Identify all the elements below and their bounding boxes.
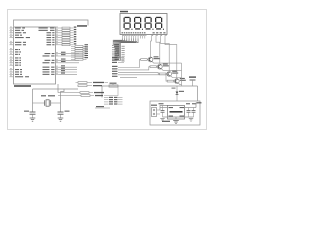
battery B1 input connector: [152, 108, 161, 117]
DS1 reference label: [120, 11, 128, 13]
DS1 digit 4 seven-segment figure 8: [155, 17, 164, 30]
wires from U1 port pins to named nets: [60, 54, 80, 63]
connector J1 pin rows: [104, 97, 123, 105]
wire crystal right branch: [60, 92, 62, 113]
B1 label: [151, 105, 157, 106]
capacitor C4 input filter: [161, 106, 165, 118]
label below regulator: [162, 121, 170, 122]
resistor R18 base resistor of Q2: [150, 66, 157, 68]
ground symbol power supply: [173, 121, 179, 124]
output node label: [197, 102, 202, 103]
DS1 pin name row inside package: [122, 32, 166, 33]
U2 ground pin wire: [175, 117, 177, 119]
U1 right pin stubs: [56, 28, 60, 74]
D1 label: [179, 91, 184, 92]
wire stub crystal right up: [61, 89, 65, 92]
transistor Q3 PNP digit driver: [167, 72, 172, 77]
wire crystal rail: [33, 88, 79, 90]
regulator U2 7805 body: [168, 106, 185, 120]
wires digit select to transistor bases: [118, 60, 168, 82]
transistor Q1 PNP digit driver: [148, 57, 153, 62]
net label near rail below Q4: [172, 88, 176, 89]
DS1 digit common pin stubs: [152, 35, 166, 39]
wire input rail: [160, 106, 168, 111]
switch S1 second row: [78, 85, 102, 87]
wire rail drop to power supply: [197, 86, 199, 101]
ground symbol below C2: [58, 118, 64, 121]
DS1 digit 3 seven-segment figure 8: [145, 17, 154, 30]
resistor R20 base resistor of Q4: [167, 80, 174, 82]
C4 label: [159, 103, 164, 104]
digit select nets with labels: [112, 57, 124, 74]
C2 value label: [65, 111, 70, 112]
net labels at wire ends: [61, 52, 66, 74]
wire stub from S2 to U1: [57, 84, 59, 93]
U1 right pin name labels: [39, 27, 55, 75]
capacitor C5 output filter: [187, 108, 191, 118]
wire bus from DS1 segment pins: [112, 39, 138, 61]
ground symbol below C4: [160, 119, 164, 122]
DS1 pin numbers below package: [123, 35, 167, 36]
wires from U1 P3 pins: [60, 67, 78, 74]
resistor network R1-R8 segment resistors: [60, 27, 77, 46]
net label below keypad: [95, 106, 110, 108]
wires transistor emitters to +5V bus: [152, 61, 182, 86]
wire S2 row to rail junction: [104, 86, 118, 96]
+5V label: [189, 76, 196, 77]
U1 right pin numbers: [56, 27, 58, 74]
wire crystal left branch: [32, 89, 34, 112]
junction stubs to switch boxes: [76, 83, 82, 96]
X1 value label 12MHz: [41, 95, 55, 96]
Q1 reference and value label: [154, 56, 160, 59]
U1 left pin name labels: [15, 27, 30, 77]
U1 left pin stubs: [10, 28, 14, 77]
diode D1: [176, 86, 179, 101]
wire rail left end down to keypad: [101, 86, 103, 98]
resistor group R9-R16 with net stubs: [71, 44, 88, 60]
node VCC label: [77, 25, 87, 27]
U2 output pin wire: [185, 107, 197, 109]
U1 left pin numbers: [10, 27, 12, 77]
DS1 segment pin stubs: [122, 35, 145, 39]
DS1 digit 1 seven-segment figure 8: [124, 17, 133, 30]
U2 input pin wire: [160, 107, 168, 109]
transistor Q2 PNP digit driver: [157, 64, 162, 69]
Q2 reference and value label: [163, 64, 169, 67]
wire +5V rail: [102, 85, 198, 87]
extra digit select net row: [112, 76, 137, 78]
ground symbol below C6: [189, 119, 193, 122]
resistor R17 base resistor of Q1: [141, 59, 148, 61]
switch S1 row: [78, 82, 108, 84]
wire stub up from rail: [112, 83, 114, 85]
wire bus elbow emphasis: [113, 40, 137, 42]
wire VCC from U1 pin 20 to VCC node: [14, 20, 89, 27]
op-amp U1 microcontroller AT89C2051 body: [14, 27, 56, 84]
wire ground rail inside power supply: [163, 116, 194, 118]
capacitor C1: [30, 112, 36, 118]
DS1 digit 2 seven-segment figure 8: [134, 17, 143, 30]
C5 C6 labels: [186, 103, 196, 104]
power supply enclosure box: [150, 101, 200, 125]
U1 part label AT89C2051: [14, 85, 31, 87]
wires DS1 digit commons to transistor collectors: [151, 39, 177, 79]
transistor Q4 PNP digit driver: [174, 79, 179, 84]
resistor R21 in rail: [109, 83, 118, 88]
display DS1 four digit seven segment module body: [120, 14, 167, 35]
crystal X1: [33, 100, 61, 106]
power +5V symbol: [190, 80, 196, 86]
ground symbol below C1: [30, 118, 36, 121]
switch S2 row: [58, 92, 104, 94]
capacitor C2: [58, 112, 64, 118]
C1 value label: [24, 111, 29, 112]
Q4 reference and value label: [180, 78, 186, 81]
resistor R19 base resistor of Q3: [159, 73, 166, 75]
power supply output node to +5V: [196, 103, 198, 108]
switch S2 second row: [58, 95, 103, 97]
capacitor C6 output filter: [192, 108, 196, 118]
Q3 reference and value label: [172, 71, 178, 74]
net labels on segment bus rows: [115, 44, 125, 61]
